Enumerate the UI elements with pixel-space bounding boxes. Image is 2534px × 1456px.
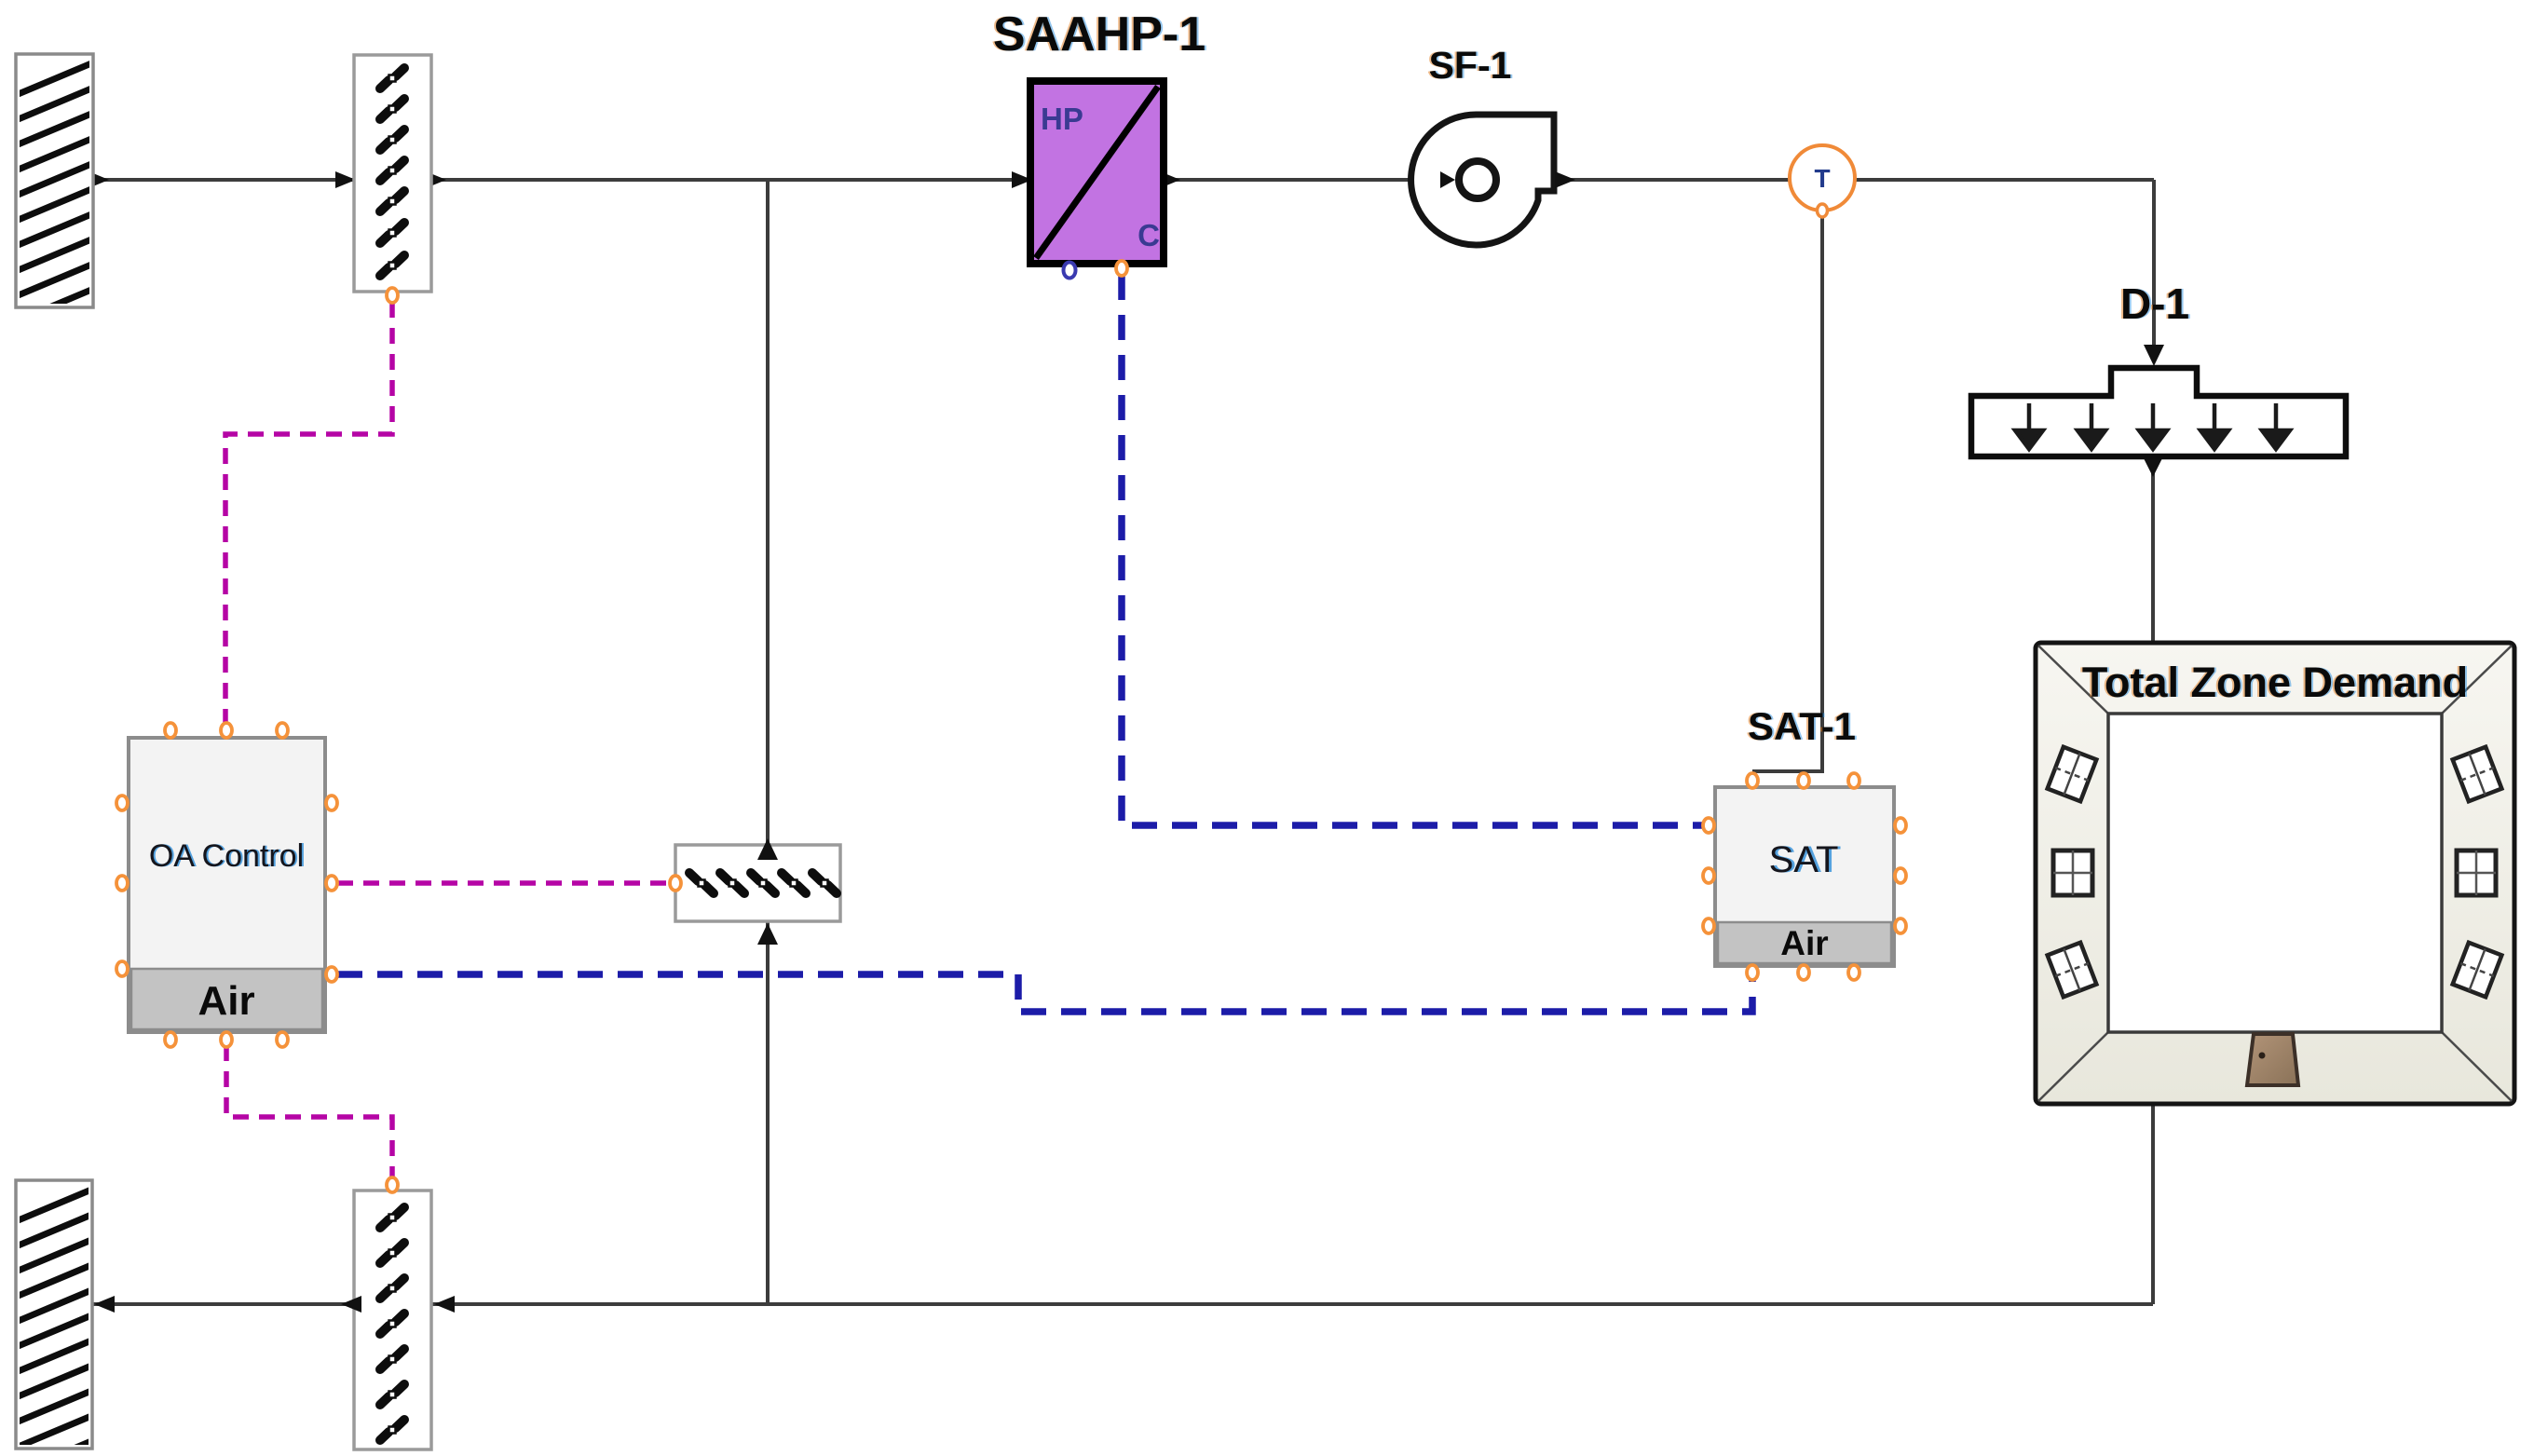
heat pump SAAHP-1	[1030, 81, 1164, 264]
control link (magenta dashed): OA damper actuator to OA Control	[225, 302, 392, 725]
supply fan SF-1	[1411, 115, 1575, 245]
ports of OA Control	[116, 723, 337, 1047]
window W (left top)	[2048, 747, 2097, 801]
svg-text:SAAHP-1: SAAHP-1	[993, 7, 1206, 61]
ports of SAT-1	[1703, 773, 1906, 980]
damper RA-D (return air damper, 7 blades)	[354, 1177, 431, 1449]
svg-text:Total Zone Demand: Total Zone Demand	[2082, 659, 2468, 706]
recirculation damper (5 blades)	[670, 845, 840, 921]
svg-text:Air: Air	[1780, 924, 1828, 962]
wire: zone to return duct	[2151, 1104, 2155, 1304]
pin: SAAHP-1 aux port (blue)	[1064, 263, 1076, 279]
window W (right bottom)	[2453, 943, 2502, 997]
arrow: into fan inlet	[1440, 171, 1455, 188]
corner bevel lines	[2038, 646, 2512, 1101]
temperature sensor T	[1790, 145, 1855, 217]
port: return damper control input	[387, 1177, 398, 1192]
arrow: return out of damper RA-D	[341, 1296, 361, 1313]
control link (magenta dashed): OA Control to recirculation damper	[337, 880, 667, 886]
arrow: return into exhaust box	[94, 1296, 115, 1313]
svg-text:SAT: SAT	[1769, 839, 1839, 880]
svg-text:HP: HP	[1041, 102, 1083, 136]
control link (blue dashed): SAAHP-1 C output to SAT-1	[1122, 275, 1703, 825]
diffuser D-1	[1971, 368, 2346, 456]
wire: main supply duct line (outside air to D-1)	[92, 180, 2154, 1304]
wire: return duct line	[92, 1302, 2153, 1306]
window W (left bottom)	[2048, 943, 2097, 997]
damper OA-D (outside air damper, 7 blades)	[354, 55, 431, 303]
zone model: Total Zone Demand room	[2036, 643, 2514, 1104]
window W (right middle)	[2457, 850, 2496, 895]
control link (blue dashed): OA Control Air to SAT-1 bottom	[337, 974, 1752, 1012]
pin: SAAHP-1 C control port (orange)	[1116, 261, 1127, 276]
exhaust air louver (hatched box, bottom-left)	[9, 1180, 102, 1456]
controller SAT-1	[1715, 787, 1894, 966]
arrow: recirc up into damper (lower)	[757, 923, 778, 945]
svg-text:Air: Air	[198, 978, 254, 1024]
arrow: into SAAHP-1	[1012, 171, 1032, 188]
svg-text:OA Control: OA Control	[149, 838, 304, 874]
label SAT-1	[1746, 704, 1858, 748]
port: recirc damper control input	[670, 876, 681, 891]
pin: T sensor output	[1818, 204, 1828, 217]
window W (right top)	[2453, 747, 2502, 801]
arrow: out of damper OA-D	[426, 171, 446, 188]
arrow: diffuser outlet down	[2142, 455, 2164, 477]
outside air intake louver (hatched box, top-left)	[9, 54, 102, 349]
arrow: OA intake into duct	[89, 171, 109, 188]
label SAAHP-1	[991, 7, 1207, 61]
control link (magenta dashed): OA Control to return damper	[226, 1045, 392, 1177]
wire: T sensor to SAT-1 input	[1754, 214, 1822, 786]
arrow: out of SAAHP-1	[1160, 171, 1180, 188]
arrowheads on air flow lines	[89, 171, 2164, 1313]
arrow: recirc up out of damper (upper)	[757, 838, 778, 860]
svg-text:SF-1: SF-1	[1429, 44, 1512, 87]
arrow: return into damper RA-D	[434, 1296, 455, 1313]
controller OA Control	[129, 738, 325, 1032]
arrow: into damper OA-D	[335, 171, 356, 188]
label SF-1	[1427, 44, 1514, 87]
wire: diffuser to zone	[2151, 455, 2155, 643]
wire: recirculation vertical line	[766, 180, 770, 1304]
arrow: fan outlet	[1555, 171, 1575, 188]
door (bottom of zone)	[2247, 1034, 2298, 1085]
arrow: D-1 feed down	[2144, 345, 2164, 366]
svg-text:SAT-1: SAT-1	[1748, 704, 1856, 748]
port: OA damper control input	[387, 288, 398, 303]
label D-1	[2118, 279, 2191, 328]
svg-text:D-1: D-1	[2120, 279, 2189, 328]
label Total Zone Demand	[2080, 659, 2470, 706]
svg-text:C: C	[1138, 218, 1160, 252]
svg-text:T: T	[1814, 164, 1830, 193]
window W (left middle)	[2053, 850, 2092, 895]
